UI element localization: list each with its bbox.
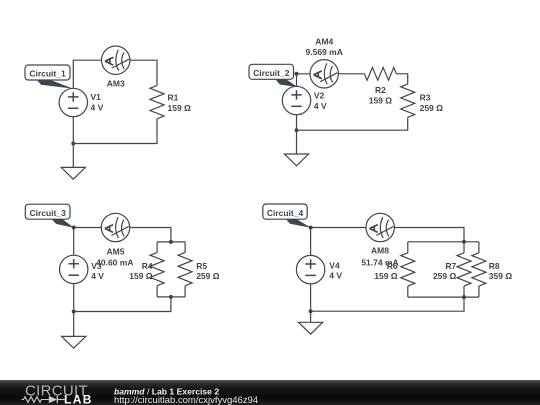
wire: bottom bus R4/R5	[157, 296, 185, 298]
svg-text:4 V: 4 V	[329, 270, 342, 280]
wire: V3 top to node	[73, 228, 75, 256]
wire: ground stem (circuit 3)	[73, 312, 75, 337]
node label Circuit_3	[52, 219, 74, 227]
svg-text:9.569 mA: 9.569 mA	[306, 47, 343, 57]
svg-text:R2: R2	[375, 85, 386, 95]
ammeter AM4	[310, 60, 338, 88]
wire: R6 top lead	[407, 242, 409, 253]
wire: R4 bottom lead	[156, 286, 158, 297]
wire: ground stem (circuit 1)	[72, 144, 74, 168]
svg-text:4 V: 4 V	[91, 102, 104, 112]
svg-text:Circuit_2: Circuit_2	[253, 68, 290, 78]
wire: R2 right to resistor R3 top	[396, 74, 407, 84]
svg-text:159 Ω: 159 Ω	[129, 271, 153, 281]
wire: R8 bottom lead	[478, 286, 480, 297]
node: circuit 2 ground junction	[295, 128, 299, 132]
svg-text:40.60 mA: 40.60 mA	[96, 257, 133, 267]
voltage source V2	[282, 86, 310, 114]
ground (circuit 3)	[62, 336, 86, 348]
svg-text:http://circuitlab.com/cxjvfyvg: http://circuitlab.com/cxjvfyvg46z94	[114, 395, 258, 405]
wire: top bus R4/R5	[157, 241, 185, 243]
svg-text:R1: R1	[168, 93, 179, 103]
svg-text:4 V: 4 V	[91, 271, 104, 281]
wire: R7 bottom lead	[463, 286, 465, 297]
voltage source V3	[59, 255, 87, 283]
svg-text:R7: R7	[445, 261, 456, 271]
svg-text:V2: V2	[314, 91, 325, 101]
ammeter AM8	[366, 213, 394, 241]
svg-text:R6: R6	[387, 261, 398, 271]
wire: R5 bottom lead	[184, 286, 186, 297]
resistor R4	[150, 252, 164, 285]
wire: ground stem (circuit 2)	[296, 130, 298, 154]
node: circuit 3 ground junction	[72, 310, 76, 314]
node: V3 top junction	[72, 226, 76, 230]
wire: node to ammeter AM5 left (circuit 3)	[74, 227, 102, 229]
resistor R1	[150, 86, 164, 119]
wire: bottom bus R6/R7/R8	[408, 296, 479, 298]
ground (circuit 1)	[61, 167, 85, 179]
wire: AM8 right to parallel trio top feed	[394, 228, 464, 242]
wire: AM4 right to resistor R2 left	[338, 73, 364, 75]
wire: V3 bottom to ground node	[73, 284, 75, 312]
wire: parallel trio bottom to bottom rail (circuit 4)	[311, 297, 464, 311]
svg-text:AM4: AM4	[315, 36, 333, 46]
resistor R3	[401, 84, 415, 117]
svg-text:259 Ω: 259 Ω	[420, 103, 444, 113]
svg-text:Circuit_4: Circuit_4	[267, 208, 304, 218]
node: circuit 4 ground junction	[309, 309, 313, 313]
voltage source V1	[59, 88, 87, 116]
node label Circuit_1	[37, 80, 74, 89]
wire: V1 bottom to ground node	[72, 117, 74, 144]
node: R4/R5 bottom junction	[169, 295, 173, 299]
node label Circuit_4	[286, 219, 311, 228]
wire: R1 bottom to bottom rail to node (circuit 1)	[73, 119, 157, 144]
svg-text:359 Ω: 359 Ω	[489, 271, 513, 281]
footer bar	[0, 380, 540, 405]
CircuitLab logo diode	[49, 396, 58, 403]
svg-text:R8: R8	[489, 261, 500, 271]
voltage source V4	[296, 255, 324, 283]
svg-text:AM3: AM3	[107, 78, 125, 88]
svg-text:159 Ω: 159 Ω	[374, 271, 398, 281]
svg-text:4 V: 4 V	[314, 101, 327, 111]
node: V2 top junction	[295, 72, 299, 76]
resistor R8	[472, 253, 486, 286]
node: R4/R5 top junction	[169, 240, 173, 244]
node: V4 top junction	[309, 226, 313, 230]
wire: parallel pair bottom to bottom rail (circuit 3)	[74, 297, 171, 312]
wire: AM5 right to parallel pair top feed	[130, 228, 171, 242]
wire: V4 bottom to ground node	[310, 284, 312, 311]
svg-text:LAB: LAB	[64, 392, 93, 405]
wire: node to ammeter AM8 left (circuit 4)	[311, 227, 366, 229]
svg-text:AM5: AM5	[107, 247, 125, 257]
svg-text:V1: V1	[91, 92, 102, 102]
svg-text:V3: V3	[91, 261, 102, 271]
ground (circuit 4)	[299, 322, 323, 334]
wire: R3 bottom to bottom rail (circuit 2)	[297, 117, 408, 130]
svg-text:AM8: AM8	[371, 245, 389, 255]
wire: R7 top lead	[463, 242, 465, 253]
svg-text:Circuit_1: Circuit_1	[29, 69, 66, 79]
resistor R5	[178, 252, 192, 285]
node label Circuit_2	[276, 79, 298, 87]
svg-text:V4: V4	[329, 261, 340, 271]
ground (circuit 2)	[284, 154, 308, 166]
ammeter AM3	[102, 46, 130, 74]
svg-text:R4: R4	[142, 261, 153, 271]
svg-text:Circuit_3: Circuit_3	[29, 208, 66, 218]
svg-text:R3: R3	[420, 92, 431, 102]
wire: ground stem (circuit 4)	[310, 311, 312, 322]
wire: R8 top lead	[478, 242, 480, 253]
wire: top bus R6/R7/R8	[408, 241, 479, 243]
node: parallel trio bottom junction	[462, 295, 466, 299]
node: parallel trio top junction	[462, 240, 466, 244]
wire: V4 top to node	[310, 228, 312, 256]
wire: V1 top to ammeter AM3 left (circuit 1)	[73, 60, 101, 88]
svg-text:R5: R5	[196, 261, 207, 271]
node: circuit 1 ground junction	[71, 142, 75, 146]
wire: V2 top to node (circuit 2)	[297, 74, 311, 87]
svg-text:159 Ω: 159 Ω	[369, 96, 393, 106]
resistor R6	[401, 253, 415, 286]
resistor R7	[457, 253, 471, 286]
svg-text:159 Ω: 159 Ω	[168, 103, 192, 113]
wire: V2 bottom to ground node	[296, 115, 298, 131]
wire: R6 bottom lead	[407, 286, 409, 297]
CircuitLab logo resistor zigzag	[22, 397, 49, 403]
resistor R2	[364, 67, 396, 80]
wire: R4 top lead	[156, 242, 158, 253]
svg-text:259 Ω: 259 Ω	[433, 271, 457, 281]
wire: AM3 right to resistor R1 top	[130, 60, 157, 85]
svg-text:259 Ω: 259 Ω	[196, 271, 220, 281]
wire: R5 top lead	[184, 242, 186, 253]
ammeter AM5	[101, 213, 129, 241]
